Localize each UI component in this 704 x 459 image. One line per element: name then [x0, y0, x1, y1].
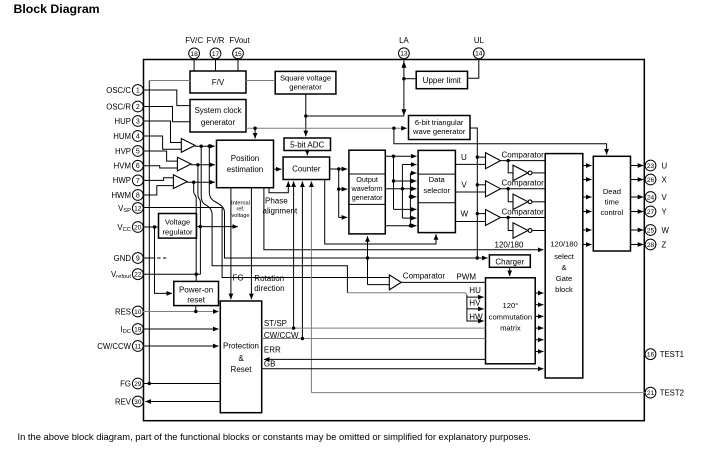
pin 5 HVP	[132, 146, 143, 157]
wire PE down rotation direction	[250, 188, 252, 300]
svg-text:10: 10	[134, 309, 142, 316]
wire HWP	[143, 178, 173, 181]
block 120/180 select and Gate block	[545, 154, 583, 378]
svg-text:Protection: Protection	[223, 342, 259, 351]
svg-text:Dead: Dead	[603, 187, 621, 196]
svg-text:generator: generator	[201, 118, 236, 127]
svg-text:28: 28	[647, 242, 655, 249]
wire HUP	[143, 121, 181, 143]
wire FG pin line	[143, 383, 220, 385]
wire comparator V out	[501, 188, 546, 190]
comparator W	[486, 210, 501, 226]
pin 1 OSC/C	[132, 85, 143, 96]
svg-text:block: block	[555, 285, 573, 294]
block 120 commutation matrix	[486, 278, 536, 364]
svg-text:Output: Output	[356, 175, 378, 184]
wire pin18 stub	[193, 59, 195, 71]
svg-text:Comparator: Comparator	[502, 151, 545, 160]
svg-text:F/V: F/V	[212, 78, 225, 87]
wire TEST2 vertical up to Counter	[310, 181, 312, 392]
svg-text:HVP: HVP	[115, 147, 131, 156]
wire HUM	[143, 136, 181, 149]
svg-text:6: 6	[136, 163, 140, 170]
wire DS out U	[455, 163, 485, 165]
svg-text:voltage: voltage	[231, 213, 249, 219]
pin 12 VSP	[132, 203, 143, 214]
wire hall S3 into regulator node	[198, 165, 201, 274]
wire CW/CCW line	[262, 338, 486, 340]
wire hall S1 to charger line	[209, 146, 477, 258]
pin 29 FG	[132, 378, 143, 389]
svg-text:120/180: 120/180	[495, 240, 524, 249]
svg-text:11: 11	[134, 343, 141, 350]
wire bus v3	[409, 173, 411, 226]
svg-text:&: &	[561, 263, 566, 272]
svg-text:22: 22	[134, 272, 142, 279]
svg-text:24: 24	[647, 194, 655, 201]
wire Charger down to matrix	[509, 267, 511, 276]
pin 18 FV/C	[189, 48, 200, 59]
wire POR down to RES	[195, 306, 197, 312]
svg-text:25: 25	[647, 227, 655, 234]
block Data selector	[418, 150, 455, 232]
svg-text:Reset: Reset	[231, 365, 253, 374]
pin 2 OSC/R	[132, 101, 143, 112]
svg-text:6-bit triangular: 6-bit triangular	[415, 118, 464, 127]
wire branch to dead time control top	[394, 128, 607, 154]
inverter U	[513, 165, 528, 180]
svg-text:21: 21	[647, 390, 655, 397]
pin 23 U	[645, 160, 656, 171]
svg-text:OSC/R: OSC/R	[106, 102, 131, 111]
wire UL to Upper limit	[468, 59, 479, 79]
svg-text:FV/R: FV/R	[207, 36, 225, 45]
pin 6 HVM	[132, 160, 143, 171]
svg-text:Power-on: Power-on	[179, 286, 213, 295]
wire PWM line	[401, 281, 485, 283]
wire VCC	[143, 226, 158, 228]
svg-text:23: 23	[647, 163, 655, 170]
pin 13 LA	[399, 48, 410, 59]
wire junction to LA	[306, 115, 404, 117]
pin 8 HWM	[132, 190, 143, 201]
svg-text:System clock: System clock	[194, 106, 242, 115]
pin 7 HWP	[132, 175, 143, 186]
comparator PWM	[389, 275, 401, 290]
svg-text:27: 27	[647, 209, 655, 216]
wire HV tap	[467, 297, 484, 309]
svg-text:Charger: Charger	[495, 257, 524, 266]
svg-text:FVout: FVout	[229, 36, 250, 45]
svg-text:13: 13	[400, 51, 408, 58]
svg-text:wave generator: wave generator	[412, 127, 466, 136]
wire OSC/R to system clock	[143, 107, 190, 122]
wire DS out V	[455, 191, 485, 193]
svg-text:PWM: PWM	[457, 272, 477, 281]
svg-text:15: 15	[234, 51, 242, 58]
wire GND	[143, 257, 155, 259]
pin 17 FV/R	[210, 48, 221, 59]
svg-text:2: 2	[136, 104, 140, 111]
svg-text:30: 30	[134, 399, 142, 406]
pin 20 VCC	[132, 222, 143, 233]
wire VSP to PWM comparator	[143, 208, 389, 278]
svg-text:3: 3	[136, 118, 140, 125]
wire charger input	[477, 257, 487, 259]
wire HWM	[143, 186, 173, 195]
svg-text:In the above block diagram, pa: In the above block diagram, part of the …	[18, 431, 531, 442]
svg-text:W: W	[662, 226, 670, 235]
wire REV	[145, 401, 220, 403]
wire DS out W	[455, 221, 485, 223]
wire 120/180 line	[264, 188, 544, 250]
wire ST/SP line	[262, 327, 486, 329]
pin 30 REV	[132, 396, 143, 407]
wire GB	[262, 368, 544, 370]
svg-text:HU: HU	[469, 286, 481, 295]
wire LA to Upper limit	[404, 78, 416, 80]
svg-text:direction: direction	[254, 284, 284, 293]
block Protection &amp; Reset	[220, 301, 261, 413]
svg-text:CW/CCW: CW/CCW	[97, 342, 131, 351]
svg-text:Phase: Phase	[265, 196, 288, 205]
wire F/V to Square voltage generator	[246, 80, 275, 82]
svg-text:5-bit ADC: 5-bit ADC	[290, 140, 324, 149]
block Output waveform generator	[349, 150, 385, 234]
wire LA double arrow	[403, 60, 405, 116]
block Position estimation	[217, 140, 274, 188]
svg-text:120/180: 120/180	[550, 239, 577, 248]
inverter V	[513, 194, 528, 209]
svg-text:OSC/C: OSC/C	[106, 86, 131, 95]
svg-text:ref.: ref.	[236, 207, 245, 213]
svg-text:Gate: Gate	[556, 274, 572, 283]
amp HU input	[181, 139, 195, 153]
svg-text:TEST1: TEST1	[660, 350, 684, 359]
wire phase alignment	[269, 181, 288, 192]
block Dead time control	[593, 156, 630, 251]
wire HU tap	[467, 295, 484, 297]
pin 11 CW/CCW	[132, 341, 143, 352]
svg-text:UL: UL	[474, 36, 485, 45]
junction dots	[304, 114, 307, 117]
wire select to DTC x6	[583, 165, 592, 167]
svg-text:X: X	[662, 175, 668, 184]
wire triangular wave bus	[470, 128, 477, 258]
wire comparator W out	[501, 217, 546, 219]
svg-text:7: 7	[136, 178, 140, 185]
pin 22 Vrefout	[132, 269, 143, 280]
pin 3 HUP	[132, 116, 143, 127]
wire PE down FG	[230, 188, 232, 300]
wire ERR	[264, 358, 486, 360]
svg-text:Z: Z	[662, 240, 667, 249]
svg-text:HUM: HUM	[113, 132, 131, 141]
wire ST/SP up to Counter	[293, 181, 295, 328]
wire SVG down to ADC	[305, 94, 307, 136]
svg-text:8: 8	[136, 192, 140, 199]
block Power-on reset	[174, 281, 219, 305]
block Square voltage generator	[275, 71, 336, 94]
pin 14 UL	[473, 48, 484, 59]
svg-text:U: U	[461, 153, 467, 162]
wire matrix outputs x6	[535, 292, 543, 294]
wire VCC to Power-on reset	[155, 227, 173, 293]
wire OWG bottom out to DS	[385, 225, 416, 227]
wire bus v1	[393, 156, 395, 209]
svg-text:estimation: estimation	[227, 165, 263, 174]
wire Vrefout	[143, 273, 200, 275]
wire to PWM comparator lower input	[368, 284, 390, 286]
wire into POR top	[195, 274, 197, 281]
wire comparator U out	[501, 160, 546, 162]
svg-text:generator: generator	[352, 193, 383, 202]
svg-text:Position: Position	[231, 154, 259, 163]
svg-text:HW: HW	[469, 312, 483, 321]
svg-text:FG: FG	[120, 379, 131, 388]
svg-text:commutation: commutation	[489, 313, 532, 322]
wire amp2 out	[191, 164, 215, 166]
block Counter	[283, 157, 330, 180]
svg-text:reset: reset	[187, 296, 206, 305]
wire OSC/C to system clock	[143, 90, 190, 106]
svg-text:V: V	[461, 181, 467, 190]
svg-text:&: &	[238, 354, 244, 363]
pin 19 IDC	[132, 324, 143, 335]
wire bus v2	[401, 165, 403, 219]
wire HVM	[143, 166, 177, 168]
svg-text:GB: GB	[264, 359, 276, 368]
pin 25 W	[645, 225, 656, 236]
amp HW input	[173, 175, 187, 189]
svg-text:HV: HV	[469, 298, 481, 307]
wire TEST2 to pin 21	[311, 392, 645, 394]
svg-text:Counter: Counter	[292, 164, 321, 173]
svg-text:Comparator: Comparator	[502, 179, 545, 188]
svg-text:5: 5	[136, 148, 140, 155]
svg-text:19: 19	[134, 326, 142, 333]
wire OWG mid out to DS	[385, 188, 416, 190]
inverter W	[513, 223, 528, 238]
svg-text:26: 26	[647, 177, 655, 184]
svg-text:GND: GND	[114, 254, 132, 263]
svg-text:120°: 120°	[503, 301, 519, 310]
wire OWG top out to DS	[385, 155, 416, 157]
wire CW/CCW pin	[143, 345, 218, 347]
wire Counter out to OWG three taps	[330, 168, 339, 170]
svg-text:29: 29	[134, 381, 142, 388]
svg-text:regulator: regulator	[163, 228, 193, 237]
wire CW/CCW up to Counter	[301, 181, 303, 338]
svg-text:control: control	[601, 208, 624, 217]
wire ADC to Counter	[306, 151, 308, 156]
wire amp1 out to Position estimation	[195, 145, 215, 147]
wire HW tap	[467, 309, 484, 321]
wire pin15 stub	[237, 59, 239, 71]
wire hall S4 to POR node	[194, 182, 197, 274]
pin 26 X	[645, 174, 656, 185]
block Voltage regulator	[159, 214, 197, 239]
svg-text:HUP: HUP	[115, 117, 131, 126]
svg-text:Comparator: Comparator	[502, 207, 545, 216]
pin 16 TEST1	[645, 349, 656, 360]
svg-text:Comparator: Comparator	[403, 272, 446, 281]
comparator U	[486, 153, 501, 169]
pin 9 GND	[132, 253, 143, 264]
svg-text:4: 4	[136, 133, 140, 140]
svg-text:U: U	[662, 161, 668, 170]
svg-text:V: V	[662, 193, 668, 202]
svg-text:HVM: HVM	[114, 162, 131, 171]
svg-text:1: 1	[136, 87, 140, 94]
svg-text:17: 17	[212, 51, 220, 58]
svg-text:Upper limit: Upper limit	[423, 76, 462, 85]
wire to OWG bottom	[367, 236, 369, 284]
pin 10 RES	[132, 306, 143, 317]
block System clock generator	[190, 100, 246, 133]
svg-text:Data: Data	[429, 175, 446, 184]
wire hall line to matrix	[347, 293, 467, 296]
svg-text:14: 14	[475, 51, 483, 58]
wire DTC to output pins x6	[631, 165, 644, 167]
wire IDC	[143, 328, 218, 330]
pin 28 Z	[645, 239, 656, 250]
wire Counter bottom to DS bottom	[325, 179, 436, 244]
wire hall S2 staircase	[201, 146, 347, 293]
pin 4 HUM	[132, 131, 143, 142]
svg-text:ERR: ERR	[264, 346, 281, 355]
svg-text:RES: RES	[115, 307, 131, 316]
wire PE to Counter	[274, 168, 282, 170]
svg-text:16: 16	[647, 352, 655, 359]
svg-text:HWP: HWP	[113, 176, 131, 185]
svg-text:W: W	[461, 210, 469, 219]
svg-text:select: select	[554, 252, 575, 261]
wire branch down into Position estimation top	[254, 128, 256, 138]
svg-text:alignment: alignment	[263, 206, 298, 215]
svg-text:Internal: Internal	[231, 200, 250, 206]
svg-text:LA: LA	[399, 36, 409, 45]
svg-text:12: 12	[134, 205, 142, 212]
svg-text:HWM: HWM	[112, 191, 132, 200]
svg-text:selector: selector	[423, 186, 450, 195]
svg-text:Voltage: Voltage	[165, 218, 190, 227]
svg-text:FV/C: FV/C	[185, 36, 203, 45]
wire RES	[143, 311, 218, 313]
pin 21 TEST2	[645, 387, 656, 398]
wire HVP	[143, 151, 177, 161]
svg-text:time: time	[605, 197, 619, 206]
block 5-bit ADC	[284, 138, 331, 151]
block Charger	[489, 255, 530, 267]
svg-text:Y: Y	[662, 207, 668, 216]
amp HV input	[177, 157, 191, 171]
svg-text:18: 18	[190, 51, 198, 58]
svg-text:9: 9	[136, 255, 140, 262]
svg-text:generator: generator	[289, 83, 322, 92]
wire pin17 stub	[215, 59, 217, 71]
pin 27 Y	[645, 206, 656, 217]
svg-text:REV: REV	[115, 397, 132, 406]
wire FG-to-F/V vertical	[148, 81, 150, 384]
svg-text:Square voltage: Square voltage	[280, 73, 331, 82]
svg-text:Block Diagram: Block Diagram	[14, 2, 100, 16]
wire regulator output internal ref arrow	[197, 226, 238, 228]
svg-text:ST/SP: ST/SP	[264, 319, 287, 328]
pin 24 V	[645, 192, 656, 203]
svg-text:matrix: matrix	[500, 324, 521, 333]
comparator V	[486, 181, 501, 197]
outer block border	[144, 60, 645, 421]
wire system clock output bus	[246, 127, 407, 129]
block Upper limit	[416, 71, 467, 88]
svg-text:waveform: waveform	[351, 184, 383, 193]
block F/V	[190, 71, 246, 93]
pin 15 FVout	[233, 48, 244, 59]
svg-text:Rotation: Rotation	[254, 274, 284, 283]
svg-text:20: 20	[134, 224, 142, 231]
svg-text:TEST2: TEST2	[660, 388, 684, 397]
block 6-bit triangular wave generator	[409, 116, 471, 140]
wire amp3 out	[187, 181, 215, 183]
